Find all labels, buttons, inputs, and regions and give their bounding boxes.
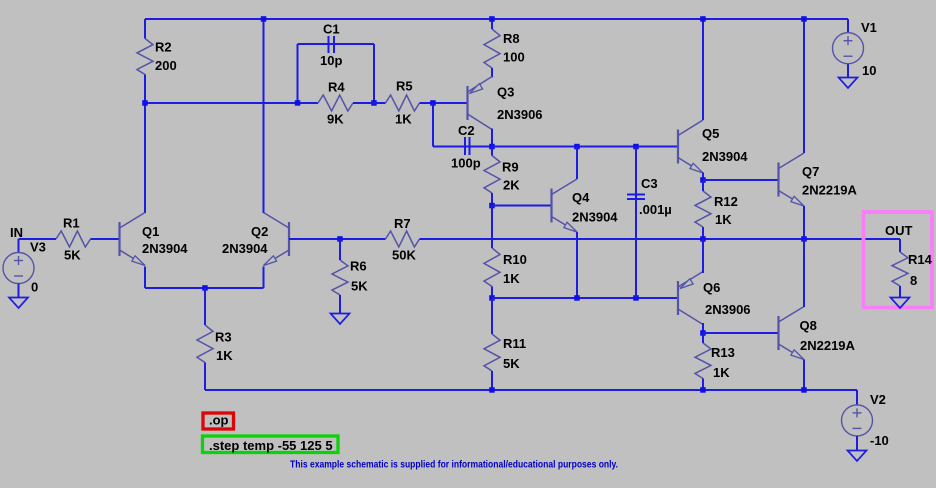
wire mirror row bbox=[492, 146, 678, 148]
svg-text:200: 200 bbox=[155, 58, 177, 73]
wire Q4 emitter bbox=[576, 232, 578, 298]
transistor Q1 bbox=[120, 213, 146, 266]
label R2 bbox=[155, 40, 172, 55]
ground below V3 bbox=[9, 298, 28, 309]
label Q4 2N3904 bbox=[572, 210, 618, 225]
wire Q2 emitter bbox=[263, 267, 265, 289]
ground below V1 bbox=[839, 78, 858, 89]
svg-text:2N3904: 2N3904 bbox=[572, 210, 618, 225]
label R13 bbox=[711, 345, 735, 360]
wire Q5 collector bbox=[702, 19, 704, 120]
svg-text:Q3: Q3 bbox=[497, 85, 514, 100]
label C2 bbox=[458, 123, 475, 138]
junction Q6 collector bbox=[700, 330, 706, 336]
wire C1 branch bbox=[298, 44, 375, 103]
transistor Q8 bbox=[779, 307, 805, 360]
svg-text:R5: R5 bbox=[396, 79, 413, 94]
junction R6 top bbox=[337, 236, 343, 242]
resistor R13 bbox=[695, 333, 711, 390]
label OUT bbox=[885, 223, 913, 238]
svg-text:Q5: Q5 bbox=[702, 126, 719, 141]
svg-text:2N3906: 2N3906 bbox=[497, 107, 543, 122]
svg-text:R6: R6 bbox=[350, 259, 367, 274]
ground below V2 bbox=[848, 451, 867, 462]
wire V1 to ground bbox=[847, 64, 849, 78]
label R7 bbox=[394, 216, 411, 231]
resistor R11 bbox=[484, 298, 500, 390]
svg-text:C1: C1 bbox=[323, 22, 340, 37]
svg-text:R4: R4 bbox=[328, 80, 345, 95]
wire signal row right bbox=[289, 238, 386, 240]
svg-text:.op: .op bbox=[209, 413, 229, 428]
label 5K bbox=[64, 248, 81, 263]
transistor Q5 bbox=[678, 120, 703, 173]
label R11 5K bbox=[503, 356, 520, 371]
svg-text:9K: 9K bbox=[327, 112, 344, 127]
label 100 bbox=[503, 50, 525, 65]
label R4 bbox=[328, 80, 345, 95]
wire V1 top lead bbox=[847, 19, 849, 33]
label Q5 2N3904 bbox=[702, 149, 748, 164]
svg-text:R8: R8 bbox=[503, 31, 520, 46]
junction R12 bottom bbox=[700, 236, 706, 242]
resistor R5 bbox=[386, 95, 468, 111]
transistor Q2 bbox=[264, 213, 290, 266]
transistor Q4 bbox=[552, 179, 578, 232]
svg-text:2N3904: 2N3904 bbox=[142, 241, 188, 256]
directive .step box bbox=[203, 436, 339, 453]
wire Q1 emitter bbox=[144, 267, 146, 289]
junction Q4 emitter bottom bbox=[574, 295, 580, 301]
label 2K bbox=[503, 178, 520, 193]
svg-text:R10: R10 bbox=[503, 252, 527, 267]
svg-text:Q8: Q8 bbox=[800, 318, 817, 333]
voltage source V1 bbox=[833, 33, 864, 64]
resistor R7 bbox=[386, 231, 420, 247]
capacitor C1 bbox=[329, 36, 335, 53]
wire Q7 emitter bbox=[803, 206, 805, 239]
svg-text:10: 10 bbox=[862, 63, 876, 78]
voltage source V2 bbox=[842, 405, 873, 436]
svg-text:1K: 1K bbox=[713, 365, 730, 380]
capacitor C3 bbox=[627, 147, 645, 299]
label 200 bbox=[155, 58, 177, 73]
label Q6 2N3906 bbox=[705, 302, 751, 317]
svg-text:Q7: Q7 bbox=[802, 164, 819, 179]
svg-text:R7: R7 bbox=[394, 216, 411, 231]
label V1 bbox=[861, 20, 877, 35]
junction R11 bottom bbox=[489, 387, 495, 393]
label R12 bbox=[714, 194, 738, 209]
junction C3 top bbox=[633, 144, 639, 150]
wire Q5 emitter bbox=[702, 173, 704, 181]
directive .op bbox=[209, 413, 229, 428]
label R5 bbox=[396, 79, 413, 94]
svg-text:.step temp -55 125 5: .step temp -55 125 5 bbox=[209, 438, 333, 453]
svg-text:OUT: OUT bbox=[885, 223, 913, 238]
svg-text:V2: V2 bbox=[870, 392, 886, 407]
svg-text:.001µ: .001µ bbox=[639, 202, 672, 217]
svg-text:5K: 5K bbox=[64, 248, 81, 263]
svg-text:50K: 50K bbox=[392, 248, 416, 263]
svg-text:C2: C2 bbox=[458, 123, 475, 138]
wire V3 to ground bbox=[18, 284, 20, 298]
label Q7 2N2219A bbox=[802, 183, 858, 198]
svg-text:5K: 5K bbox=[503, 356, 520, 371]
wire Q2 collector bbox=[263, 19, 265, 213]
label R10 bbox=[503, 252, 527, 267]
junction node A bbox=[142, 100, 148, 106]
svg-text:V3: V3 bbox=[30, 240, 46, 255]
label R13 1K bbox=[713, 365, 730, 380]
svg-text:Q1: Q1 bbox=[142, 224, 159, 239]
label Q8 bbox=[800, 318, 817, 333]
wire Q3 collector bbox=[491, 129, 493, 147]
resistor R4 bbox=[318, 95, 386, 111]
svg-text:2N2219A: 2N2219A bbox=[802, 183, 858, 198]
svg-text:This example schematic is supp: This example schematic is supplied for i… bbox=[290, 460, 618, 471]
ground below R6 bbox=[331, 314, 350, 325]
wire Q8 base row bbox=[703, 332, 779, 334]
label IN bbox=[10, 225, 23, 240]
label .001u bbox=[639, 202, 672, 217]
svg-text:1K: 1K bbox=[503, 271, 520, 286]
junction C1 left bbox=[295, 100, 301, 106]
svg-text:100: 100 bbox=[503, 50, 525, 65]
wire V2 to ground bbox=[856, 436, 858, 451]
transistor Q7 bbox=[779, 153, 805, 206]
label 10 bbox=[862, 63, 876, 78]
capacitor C2 bbox=[465, 137, 470, 155]
node OUT box bbox=[864, 212, 933, 308]
wire signal row to OUT bbox=[420, 238, 901, 240]
svg-text:V1: V1 bbox=[861, 20, 877, 35]
svg-text:R3: R3 bbox=[215, 330, 232, 345]
svg-text:-10: -10 bbox=[870, 433, 889, 448]
wire node A row bbox=[145, 102, 318, 104]
voltage source V3 bbox=[3, 253, 34, 284]
wire emitter row bbox=[145, 287, 264, 289]
wire OUT corner bbox=[899, 239, 901, 252]
junction Q7 emitter bbox=[801, 236, 807, 242]
note educational text bbox=[290, 460, 618, 471]
junction Q5 emitter bbox=[700, 177, 706, 183]
label 0 bbox=[31, 280, 38, 295]
svg-text:8: 8 bbox=[910, 273, 917, 288]
resistor R12 bbox=[695, 180, 711, 239]
svg-text:1K: 1K bbox=[216, 348, 233, 363]
svg-text:R14: R14 bbox=[908, 252, 933, 267]
label R8 bbox=[503, 31, 520, 46]
svg-text:2N3904: 2N3904 bbox=[702, 149, 748, 164]
label 10p bbox=[320, 53, 342, 68]
label R3 bbox=[215, 330, 232, 345]
svg-text:R9: R9 bbox=[502, 160, 519, 175]
ground below R14 bbox=[891, 298, 910, 309]
label C1 bbox=[323, 22, 340, 37]
label Q3 bbox=[497, 85, 514, 100]
svg-text:2K: 2K bbox=[503, 178, 520, 193]
svg-text:R1: R1 bbox=[63, 216, 80, 231]
directive .step bbox=[209, 438, 333, 453]
label Q2 bbox=[251, 224, 268, 239]
label Q1 bbox=[142, 224, 159, 239]
label Q5 bbox=[702, 126, 719, 141]
junction Q7 collector top bbox=[801, 16, 807, 22]
label Q8 2N2219A bbox=[800, 338, 856, 353]
wire IN lead bbox=[19, 238, 57, 240]
label Q6 bbox=[703, 280, 720, 295]
resistor R9 bbox=[484, 147, 500, 206]
svg-text:R13: R13 bbox=[711, 345, 735, 360]
label 8 bbox=[910, 273, 917, 288]
svg-text:10p: 10p bbox=[320, 53, 342, 68]
label 9K bbox=[327, 112, 344, 127]
label Q3 2N3906 bbox=[497, 107, 543, 122]
label Q4 bbox=[572, 190, 590, 205]
wire Q4 base lead bbox=[492, 205, 552, 207]
wire top supply rail bbox=[145, 18, 848, 20]
wire bottom rail bbox=[205, 389, 857, 391]
wire V2 top lead bbox=[856, 390, 858, 405]
transistor Q6 pnp bbox=[678, 272, 703, 325]
junction R5 right bbox=[430, 100, 436, 106]
svg-text:C3: C3 bbox=[641, 176, 658, 191]
label R14 bbox=[908, 252, 933, 267]
junction R10 bottom bbox=[489, 295, 495, 301]
svg-text:2N3906: 2N3906 bbox=[705, 302, 751, 317]
resistor R2 bbox=[137, 19, 153, 103]
directive .op box bbox=[203, 413, 234, 429]
label R1 bbox=[63, 216, 80, 231]
svg-text:Q6: Q6 bbox=[703, 280, 720, 295]
label R12 1K bbox=[715, 212, 732, 227]
junction R13 bottom bbox=[700, 387, 706, 393]
junction emitter row bbox=[202, 285, 208, 291]
svg-text:2N3904: 2N3904 bbox=[222, 241, 268, 256]
label Q7 bbox=[802, 164, 819, 179]
svg-text:IN: IN bbox=[10, 225, 23, 240]
svg-text:R2: R2 bbox=[155, 40, 172, 55]
junction C1 right bbox=[371, 100, 377, 106]
svg-text:0: 0 bbox=[31, 280, 38, 295]
wire Q4 collector bbox=[576, 147, 578, 180]
junction R8 top bbox=[489, 16, 495, 22]
wire Q6 collector bbox=[702, 323, 704, 333]
svg-text:1K: 1K bbox=[715, 212, 732, 227]
resistor R10 bbox=[484, 206, 500, 299]
wire lower mirror row bbox=[492, 297, 678, 299]
junction R9 bottom bbox=[489, 203, 495, 209]
svg-text:R11: R11 bbox=[503, 336, 526, 351]
wire Q1 collector bbox=[144, 103, 146, 213]
svg-text:2N2219A: 2N2219A bbox=[800, 338, 856, 353]
wire Q6 emitter bbox=[702, 239, 704, 273]
transistor Q3 bbox=[468, 77, 493, 130]
junction C2 right bbox=[489, 144, 495, 150]
svg-text:100p: 100p bbox=[451, 156, 481, 171]
label R5 1K bbox=[395, 112, 412, 127]
label R11 bbox=[503, 336, 526, 351]
label R6 5K bbox=[351, 279, 368, 294]
label C3 bbox=[641, 176, 658, 191]
resistor R6 bbox=[332, 239, 348, 314]
label 100p bbox=[451, 156, 481, 171]
resistor R1 bbox=[56, 231, 120, 247]
wire Q7 base row bbox=[703, 179, 779, 181]
label V3 bbox=[30, 240, 46, 255]
label V2 bbox=[870, 392, 886, 407]
junction Q2 collector top bbox=[261, 16, 267, 22]
resistor R14 bbox=[892, 252, 908, 298]
wire Q8 collector bbox=[803, 239, 805, 307]
wire C2 branch bbox=[433, 103, 492, 147]
label -10 bbox=[870, 433, 889, 448]
wire Q8 emitter bbox=[803, 360, 805, 391]
label R3 1K bbox=[216, 348, 233, 363]
junction Q4 collector top bbox=[574, 144, 580, 150]
label R10 1K bbox=[503, 271, 520, 286]
label Q1 2N3904 bbox=[142, 241, 188, 256]
svg-text:R12: R12 bbox=[714, 194, 738, 209]
junction Q8 emitter bottom bbox=[801, 387, 807, 393]
resistor R3 bbox=[197, 288, 213, 390]
label 50K bbox=[392, 248, 416, 263]
svg-text:Q2: Q2 bbox=[251, 224, 268, 239]
label Q2 2N3904 bbox=[222, 241, 268, 256]
svg-text:Q4: Q4 bbox=[572, 190, 590, 205]
wire Q7 collector bbox=[803, 19, 805, 153]
svg-text:1K: 1K bbox=[395, 112, 412, 127]
junction C3 bottom bbox=[633, 295, 639, 301]
junction Q5 collector top bbox=[700, 16, 706, 22]
label R9 bbox=[502, 160, 519, 175]
label R6 bbox=[350, 259, 367, 274]
resistor R8 bbox=[484, 19, 500, 78]
svg-text:5K: 5K bbox=[351, 279, 368, 294]
wire V3 top lead bbox=[18, 239, 20, 253]
